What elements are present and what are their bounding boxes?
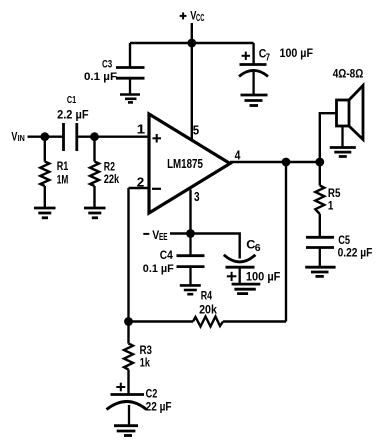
value 22k (R2) [104,172,120,186]
wire pin 3 down [189,190,191,234]
ground below C6 [232,284,261,294]
svg-text:R1: R1 [57,159,69,173]
svg-text:100 µF: 100 µF [280,48,314,60]
junction input node A [40,132,49,141]
svg-text:IN: IN [18,133,25,143]
node +VCC label [0,0,1,1]
svg-text:1: 1 [137,122,146,136]
plus sign C6 [227,272,237,281]
minus sign VEE [143,233,149,235]
label R1 [57,159,69,173]
svg-text:6: 6 [255,242,261,254]
label C5 [338,233,350,247]
value 1M (R1) [57,173,69,187]
capacitor C4 [177,234,205,286]
capacitor C1 [64,123,77,151]
value 100 uF (C6) [246,272,281,284]
svg-text:R4: R4 [201,289,213,303]
svg-text:100 µF: 100 µF [246,272,281,284]
wire C3 riser [129,43,131,68]
label C4 [160,248,173,262]
wire VCC vertical to pin 5 [191,23,193,141]
svg-text:22 µF: 22 µF [146,401,172,413]
wire C1 to pin 1 [77,135,149,137]
svg-text:5: 5 [193,124,199,138]
capacitor C3 [116,68,145,94]
svg-text:4Ω-8Ω: 4Ω-8Ω [333,67,364,81]
svg-text:C3: C3 [102,58,112,70]
svg-text:0.1 µF: 0.1 µF [84,71,117,83]
label C3 [102,58,112,70]
node -VEE label [152,228,168,243]
label speaker impedance [333,67,364,81]
svg-text:C5: C5 [338,233,350,247]
svg-text:3: 3 [194,190,200,204]
wire speaker riser [320,113,337,162]
junction output feedback tap [282,158,291,167]
ground below C5 [305,267,335,276]
speaker LS1 [337,86,364,148]
value 20k (R4) [199,302,217,316]
pin 3 label [194,190,200,204]
label C6 [246,238,260,254]
ground below C3 [120,95,140,103]
svg-text:7: 7 [266,52,271,63]
value 1 (R5) [328,199,334,213]
wire VIN lead [28,135,64,137]
resistor R2 [90,137,99,208]
op-amp U1 LM1875 [149,114,230,213]
wire output [230,161,320,163]
wire pin 2 stub [129,187,150,189]
capacitor C2 [107,395,147,426]
wire feedback bottom right segment [223,320,286,322]
pin 2 label [137,175,145,189]
pin 1 label [137,122,146,136]
svg-text:1: 1 [328,199,334,213]
wire feedback riser left [127,188,129,322]
svg-text:22k: 22k [104,172,120,186]
svg-text:1k: 1k [140,356,150,370]
label R2 [104,159,115,173]
svg-text:2.2 µF: 2.2 µF [57,110,89,122]
ground below speaker [330,148,356,157]
value 2.2 uF (C1) [57,110,89,122]
label C2 [146,387,158,401]
plus sign C2 [116,383,125,392]
value 22 uF (C2) [146,401,172,413]
label LM1875 [167,157,203,171]
capacitor C7 [239,65,268,95]
wire feedback bottom left segment [129,320,194,322]
svg-text:C1: C1 [67,94,76,106]
value 1k (R3) [140,356,150,370]
label R5 [328,186,341,200]
op-amp minus input marker [152,188,161,190]
svg-text:LM1875: LM1875 [167,157,203,171]
svg-text:1M: 1M [57,173,69,187]
ground below R2 [84,208,106,218]
label C7 [259,47,271,64]
capacitor C6 [224,255,256,284]
junction output speaker tap [315,158,324,167]
resistor R4 [193,317,223,327]
wire VCC horizontal rail [130,42,254,44]
ground below C7 [241,95,268,106]
svg-text:CC: CC [196,13,204,24]
pin 4 label [235,148,241,162]
resistor R1 [40,137,49,208]
svg-text:0.1 µF: 0.1 µF [143,263,174,275]
svg-text:4: 4 [235,148,241,162]
svg-text:C4: C4 [160,248,173,262]
resistor R3 [124,322,133,395]
junction VCC [187,39,196,48]
node VIN label [11,130,24,144]
plus sign C7 [242,52,250,60]
junction node B [90,132,99,141]
junction VEE node [186,229,195,238]
ground below R1 [34,208,56,218]
ground below C2 [114,426,138,436]
label R4 [201,289,213,303]
wire VEE to C6 [191,234,240,259]
op-amp plus input marker [153,134,162,143]
svg-text:V: V [11,130,17,144]
wire feedback riser right [285,162,287,322]
wire -VEE stub [170,232,191,234]
label C1 [67,94,76,106]
label R3 [140,343,153,357]
value 100 uF (C7) [280,48,314,60]
ground below C4 [180,285,201,294]
pin 5 label [193,124,199,138]
svg-text:0.22 µF: 0.22 µF [338,247,373,259]
wire C7 riser [252,43,254,65]
value 0.1 uF (C3) [84,71,117,83]
svg-text:EE: EE [159,232,168,243]
value 0.1 uF (C4) [143,263,174,275]
resistor R5 [315,162,324,237]
junction feedback node [124,317,133,326]
svg-text:C2: C2 [146,387,158,401]
capacitor C5 [306,237,334,266]
value 0.22 uF (C5) [338,247,373,259]
svg-text:20k: 20k [199,302,217,316]
